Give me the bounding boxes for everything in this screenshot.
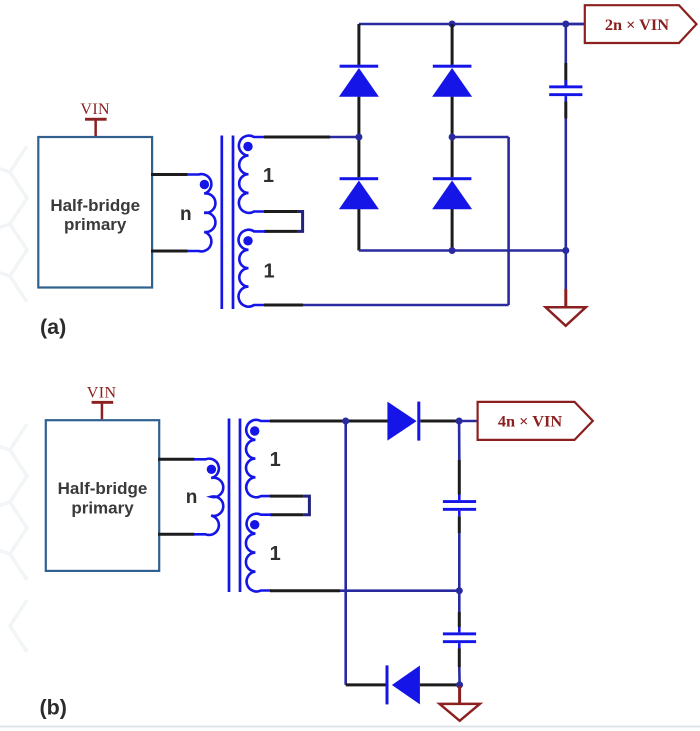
- watermark background shapes: [0, 146, 27, 652]
- transformer T2 primary winding (b): [194, 459, 223, 535]
- svg-text:(b): (b): [40, 696, 67, 720]
- capacitor C1 (a) bottom plate: [549, 93, 582, 96]
- capacitor C2 (b) top plate: [443, 632, 476, 635]
- ground symbol (b): [440, 704, 480, 721]
- wire outer route vertical (a): [507, 137, 510, 305]
- svg-text:primary: primary: [64, 215, 127, 234]
- svg-text:n: n: [186, 487, 198, 508]
- transformer T1 core (a): [220, 136, 223, 310]
- transformer T2 core (b): [228, 419, 231, 593]
- wire primary top lead (b): [158, 458, 195, 461]
- wire capacitor C1 top segments (a): [564, 24, 567, 63]
- wire transformer bottom to mid junction (b) black part: [270, 589, 340, 592]
- transformer T2 secondary winding 2 (b): [246, 514, 271, 592]
- wire right column top segments (b): [458, 421, 461, 460]
- wire right mid tap to outer route (a): [452, 136, 509, 139]
- capacitor C1 (a) top plate: [549, 85, 582, 88]
- wire left loop vertical (b): [344, 421, 347, 685]
- capacitor C1 (b) bottom plate: [443, 508, 476, 511]
- diode D2 (a) triangle: [432, 68, 472, 97]
- diode D2 (b) triangle: [392, 666, 420, 705]
- output flag 2n x VIN (a): [585, 5, 697, 43]
- output flag 4n x VIN (b): [478, 402, 593, 440]
- power port VIN (a) stem wire: [94, 119, 97, 138]
- wire bottom rail (a): [359, 249, 566, 252]
- svg-text:1: 1: [263, 261, 274, 283]
- svg-text:1: 1: [270, 543, 281, 565]
- transformer T2 secondary winding 1 (b): [246, 420, 271, 497]
- diode D3 (a) cathode bar: [340, 177, 379, 180]
- capacitor C2 (b) lead stubs: [458, 627, 461, 632]
- wire to ground (a): [564, 251, 567, 290]
- diode D4 (a) cathode bar: [433, 177, 472, 180]
- wire primary top lead (a): [151, 173, 188, 176]
- wire center-tap jog bottom (a): [264, 230, 297, 233]
- ground stem (a): [564, 289, 567, 307]
- capacitor C1 (a) lead stubs: [564, 80, 567, 85]
- diode D2 (a) cathode bar: [433, 65, 472, 68]
- svg-text:4n × VIN: 4n × VIN: [498, 412, 562, 431]
- svg-text:VIN: VIN: [80, 101, 110, 118]
- wire diode D2 to ground junction (b): [420, 683, 460, 686]
- power port VIN (a) bar symbol: [85, 118, 107, 121]
- wire outer route bottom navy (a): [303, 304, 509, 307]
- power port VIN (b) bar symbol: [92, 401, 114, 404]
- wire center-tap jog bottom (b): [270, 513, 304, 516]
- wire top rail (a): [359, 23, 585, 26]
- wire primary bottom lead (b): [158, 533, 195, 536]
- bottom separator line: [0, 726, 700, 728]
- power port VIN (b) stem wire: [101, 402, 104, 421]
- diode D2 (b) cathode bar: [386, 665, 389, 704]
- svg-text:Half-bridge: Half-bridge: [58, 479, 148, 498]
- capacitor C2 (b) bottom plate: [443, 640, 476, 643]
- svg-text:1: 1: [270, 449, 281, 471]
- svg-text:(a): (a): [40, 315, 66, 339]
- wire cap C2 to ground junction (b): [458, 649, 461, 668]
- junction dot bottom rail at C1 (a): [562, 247, 569, 254]
- transformer T2 secondary 1 polarity dot (b): [250, 426, 259, 435]
- junction dot output (b): [456, 418, 463, 425]
- svg-text:2n × VIN: 2n × VIN: [605, 15, 669, 34]
- capacitor C1 (b) lead stubs: [458, 495, 461, 501]
- transformer T1 secondary 2 polarity dot (a): [243, 236, 252, 245]
- wire junction to flag (b): [459, 420, 478, 423]
- junction dot bottom rail at D4 (a): [449, 247, 456, 254]
- diode D4 (a) triangle: [432, 181, 472, 210]
- junction dot top rail at C1 (a): [562, 21, 569, 28]
- transformer T2 primary polarity dot (b): [207, 465, 216, 474]
- wire center-tap jog corner (a): [297, 212, 303, 232]
- junction dot left loop top (b): [342, 418, 349, 425]
- junction dot mid left column (a): [355, 134, 362, 141]
- transformer T1 secondary winding 2 (a): [239, 230, 266, 307]
- transformer T1 primary polarity dot (a): [200, 180, 209, 189]
- wire left loop bottom (b): [346, 683, 386, 686]
- junction dot ground (b): [456, 681, 463, 688]
- half-bridge primary block (b): [46, 420, 159, 571]
- wire transformer bottom to mid junction (b) navy part: [340, 589, 459, 592]
- svg-text:n: n: [180, 204, 192, 225]
- svg-text:Half-bridge: Half-bridge: [50, 196, 140, 215]
- wire mid junction down segments (b): [458, 591, 461, 612]
- diode D1 (b) cathode bar: [417, 402, 420, 441]
- svg-text:1: 1: [263, 165, 274, 187]
- junction dot top rail at D2 (a): [449, 21, 456, 28]
- ground symbol (a): [546, 307, 586, 326]
- ground stem (b): [458, 686, 461, 704]
- wire outer route bottom black (a): [264, 304, 303, 307]
- wire primary bottom lead (a): [151, 250, 188, 253]
- svg-text:VIN: VIN: [87, 384, 117, 401]
- transformer T1 primary winding (a): [187, 174, 215, 251]
- wire D2 column segments (a): [451, 24, 454, 65]
- svg-text:primary: primary: [71, 499, 134, 518]
- wire rail to output flag (a): [566, 23, 585, 26]
- wire center-tap jog top (b): [270, 495, 304, 498]
- junction dot mid (b): [456, 587, 463, 594]
- wire right column mid segments (b): [458, 516, 461, 533]
- diode D1 (a) triangle: [339, 68, 379, 97]
- wire secondary top to bridge (a) black part: [264, 136, 330, 139]
- transformer T1 secondary 1 polarity dot (a): [243, 142, 252, 151]
- wire capacitor C1 bottom segments (a): [564, 102, 567, 119]
- wire center-tap jog corner (b): [304, 496, 310, 515]
- diode D1 (b) triangle: [387, 402, 416, 441]
- wire D1 column segments (a): [357, 24, 360, 65]
- diode D3 (a) triangle: [339, 181, 379, 210]
- wire center-tap jog top (a): [264, 210, 297, 213]
- wire diode to output junction (b): [420, 420, 459, 423]
- wire secondary top to bridge (a) navy part: [330, 136, 359, 139]
- transformer T1 secondary winding 1 (a): [239, 136, 265, 213]
- junction dot mid right column (a): [449, 134, 456, 141]
- diode D1 (a) cathode bar: [340, 65, 379, 68]
- half-bridge primary block (a): [38, 137, 152, 288]
- transformer T2 secondary 2 polarity dot (b): [250, 520, 259, 529]
- capacitor C1 (b) top plate: [443, 500, 476, 503]
- wire secondary top to diode (b): [270, 420, 388, 423]
